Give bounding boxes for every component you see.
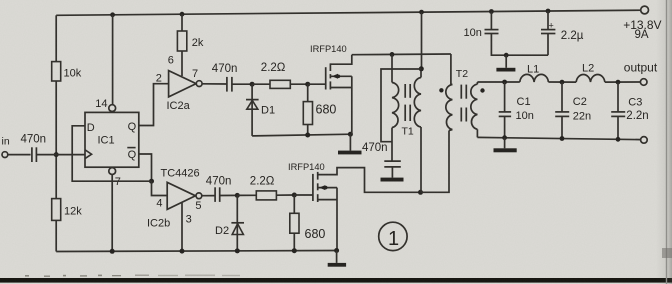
node C3 top junction [616,80,621,85]
resistor 680 upper [303,84,336,136]
node figure number circle 1 [379,222,407,250]
diode D1 [246,84,275,136]
wire input to C 470n [8,154,31,156]
wire bottom rail [56,251,336,252]
capacitor 10n supply [464,12,549,56]
wire lower gate lead [294,194,313,196]
wire photo bottom black bar [0,278,672,283]
node T1 centre junction [419,66,424,71]
node lower 680 junction [292,193,297,198]
transformer T2 [446,54,478,137]
wire Q output to IC2a input [139,84,169,126]
inductor L1 [520,64,549,83]
node top rail junction to T1 centre feed [419,10,424,15]
wire to T2 primary bottom [421,131,450,193]
capacitor C2 22n [555,82,591,138]
wire bottom left smudge marks [25,275,240,277]
wire top supply rail [56,10,643,15]
wire right edge scan shading [656,0,672,284]
node T2 primary phasing dot [439,88,443,92]
node T1 right bottom junction [418,190,423,195]
node upper D1 junction [250,82,255,87]
capacitor C1 10n [499,82,534,137]
ground T1 capacitor [381,178,404,182]
node top rail junction to IC1 pin14 [110,12,115,17]
terminal +13.8V [623,6,661,41]
node C1 bottom [502,135,507,140]
op-amp IC2a driver [156,55,202,112]
capacitor C3 2.2n [611,82,648,139]
wire filter bottom rail [477,137,640,139]
node 680 bottom [305,133,310,138]
node pin7 bottom junction [110,249,115,254]
node C1 top junction [502,80,507,85]
node T1 left top [390,52,395,57]
capacitor 470n lower driver [206,176,232,202]
wire L1 to L2 [548,81,576,83]
op-amp IC1 flip-flop body [85,112,139,167]
capacitor 470n upper driver [212,63,238,91]
wire 2k to IC2a pin 6 [181,51,183,76]
node T2 secondary phasing dot [480,88,484,92]
capacitor 470n input [21,133,47,162]
wire T2 secondary top to filter [477,81,519,83]
resistor 2k [177,14,204,51]
transformer T1 [392,54,421,192]
node D2 bottom junction [235,248,240,253]
wire T1 centre feed from rail [421,12,423,69]
op-amp IC2b driver [147,168,202,230]
terminal in [2,136,10,158]
node supply ground junction [504,53,509,58]
node C2 bottom [560,136,565,141]
terminal output bottom [641,137,648,144]
node lower D2 junction [235,193,240,198]
ground filter [494,138,517,153]
node input junction [54,152,59,157]
diode D2 [215,195,244,251]
node feedback junction [149,179,154,184]
wire 10k to input node [55,81,57,199]
wire L2 to output [605,81,641,83]
node pin3 bottom junction [180,249,185,254]
node C3 bottom [616,137,621,142]
ground bottom rail [328,251,346,267]
pin 14 [95,15,115,112]
transistor Q1 IRFP140 upper [310,44,352,134]
capacitor 470n T1 [362,142,401,178]
wire upper gate lead [308,83,326,85]
inductor L2 [576,63,605,83]
wire feedback to IC2b pin 4 [152,181,168,195]
pin 7 [109,168,121,252]
resistor 2.2ohm lower [237,176,294,200]
wire upper drain to T1 and T2 [352,53,451,56]
node ground junction bottom rail [334,248,339,253]
node C2 top junction [560,80,565,85]
resistor 10k [52,62,82,81]
resistor 12k [52,199,83,221]
node top rail junction to C 10n [489,9,494,14]
wire IC2b pin3 to bottom rail [181,203,183,252]
wire IC2b out to C 470n [202,195,215,197]
terminal output top [624,60,658,85]
wire feedback to D input [72,126,151,181]
wire Qbar output to feedback node [139,154,152,181]
wire to lower gate node [220,194,238,196]
node upper ground junction [348,132,353,137]
wire 12k to bottom rail [55,220,57,251]
node upper 680 junction [305,82,310,87]
ground supply caps [496,55,515,71]
node 680 bottom junction [292,248,297,253]
resistor 680 lower [290,195,326,251]
wire IC2a out to C 470n [202,83,227,85]
wire T1 centre loop to C 470n [381,69,421,142]
wire to upper gate node [232,83,252,85]
wire C 470n to IC1 clock [36,154,85,156]
node top rail junction to R 2k [180,12,185,17]
transistor Q2 IRFP140 lower [288,162,421,251]
resistor 2.2ohm upper [252,62,308,89]
node top rail junction to C 2.2u [546,9,551,14]
capacitor 2.2u electrolytic [541,11,584,55]
wire left vertical branch [55,15,57,61]
wire upper source return [252,134,352,136]
ground upper driver [338,134,362,154]
